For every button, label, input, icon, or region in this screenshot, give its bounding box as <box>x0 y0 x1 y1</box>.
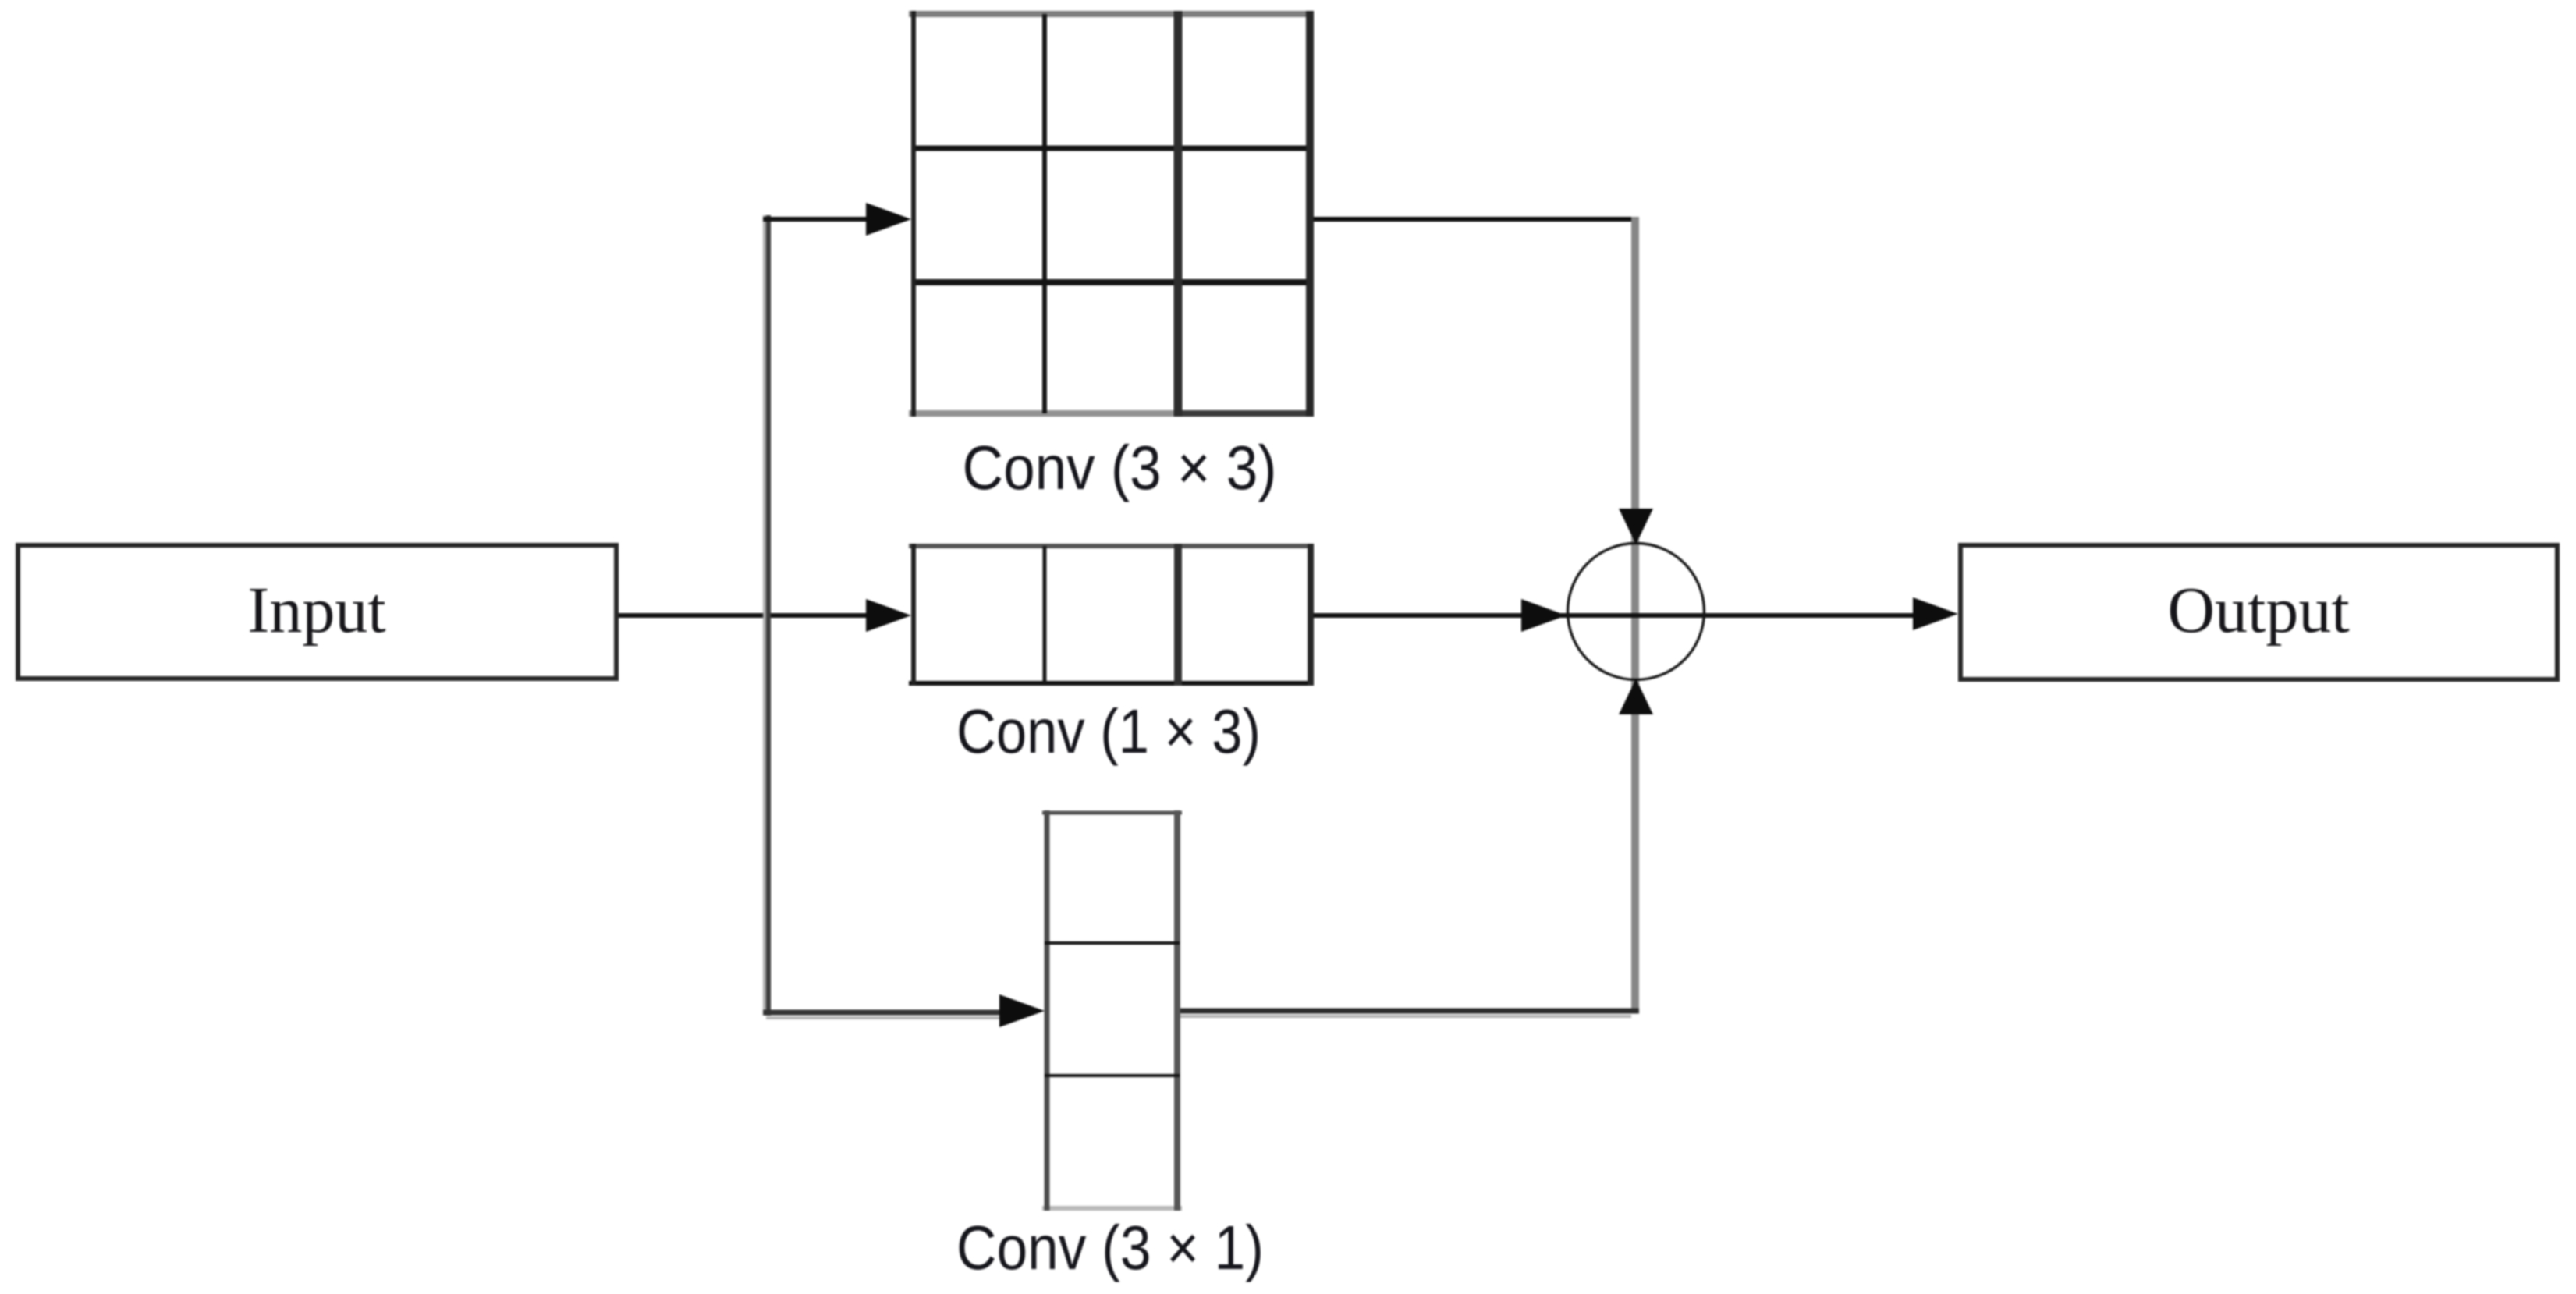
svg-text:Conv (3 × 3): Conv (3 × 3) <box>963 433 1277 502</box>
svg-text:Output: Output <box>2167 574 2349 647</box>
svg-text:Input: Input <box>247 574 385 647</box>
svg-text:Conv (1 × 3): Conv (1 × 3) <box>956 697 1261 766</box>
svg-text:Conv (3 × 1): Conv (3 × 1) <box>956 1213 1264 1282</box>
